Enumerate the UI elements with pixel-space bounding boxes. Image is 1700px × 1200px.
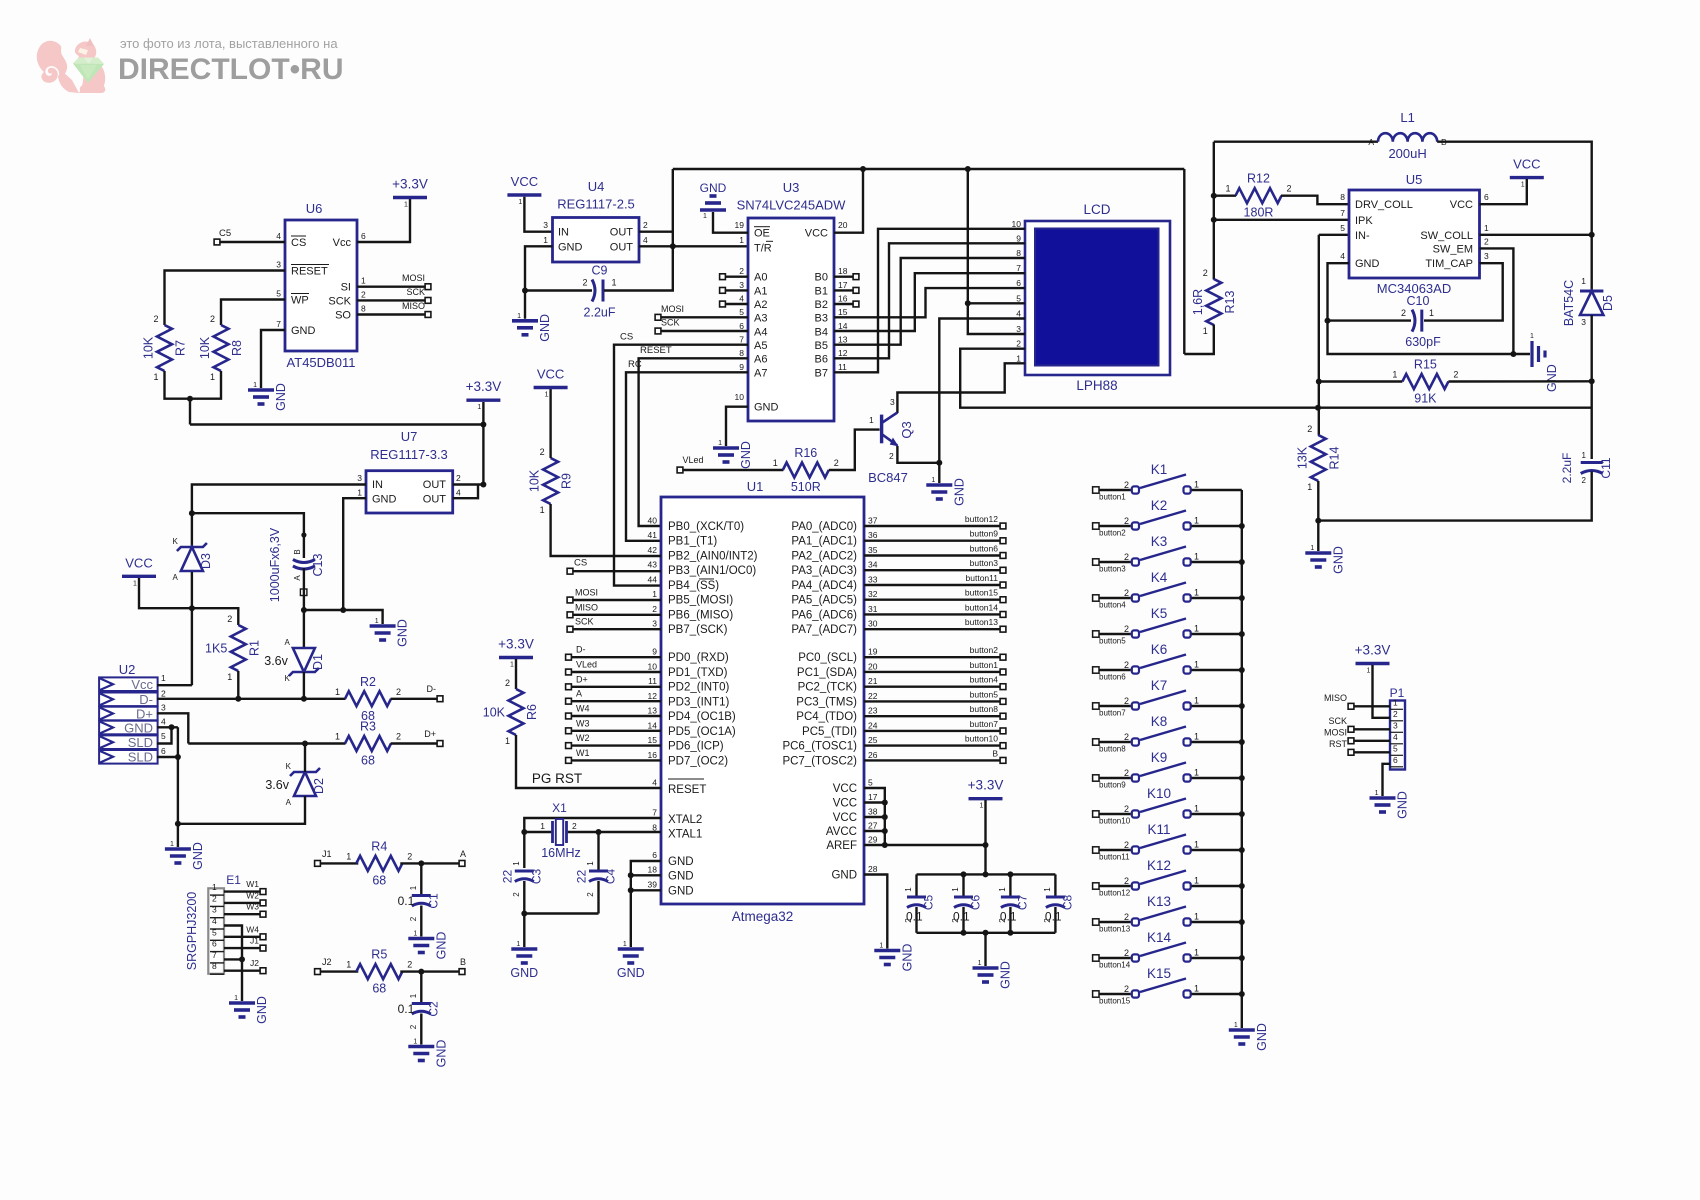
- terminal RST (P1): [1348, 749, 1354, 755]
- svg-text:button3: button3: [970, 558, 999, 568]
- svg-text:1: 1: [413, 1039, 417, 1046]
- svg-text:2: 2: [456, 473, 461, 483]
- svg-text:IN-: IN-: [1355, 230, 1370, 242]
- button K3: [1093, 534, 1242, 574]
- svg-text:button13: button13: [965, 617, 998, 627]
- U3 pin name GND: [754, 402, 779, 414]
- P1 pin 4: [1390, 732, 1403, 744]
- svg-text:GND: GND: [1355, 258, 1380, 270]
- svg-text:SW_COLL: SW_COLL: [1420, 230, 1473, 242]
- svg-text:X1: X1: [552, 801, 567, 815]
- svg-text:1: 1: [212, 882, 217, 892]
- svg-text:R2: R2: [360, 675, 376, 689]
- wire IN-: [1319, 234, 1349, 236]
- svg-text:14: 14: [838, 321, 848, 331]
- button K4: [1093, 570, 1242, 610]
- ground buttons: [1229, 1022, 1269, 1051]
- svg-text:1: 1: [1194, 768, 1199, 778]
- wire C8 bottom: [1054, 907, 1056, 933]
- wire U7 OUT2: [453, 483, 484, 485]
- svg-text:A: A: [285, 638, 291, 647]
- svg-text:0.1: 0.1: [398, 894, 415, 908]
- label W2 (PD): [576, 733, 590, 743]
- junction bus K6: [1239, 667, 1245, 673]
- svg-text:2: 2: [1582, 476, 1587, 485]
- svg-text:1: 1: [545, 392, 549, 399]
- wire MOSI A3: [662, 316, 749, 318]
- junction C10 left: [1325, 318, 1331, 324]
- svg-text:1: 1: [227, 672, 232, 682]
- U3 pin name VCC: [805, 228, 828, 240]
- label button6: [970, 543, 999, 553]
- wire C13 bottom: [303, 568, 305, 610]
- svg-text:Vcc: Vcc: [333, 237, 352, 249]
- label PG RST: [532, 771, 582, 786]
- svg-text:2: 2: [1484, 236, 1489, 246]
- svg-text:43: 43: [648, 560, 658, 570]
- wire SCK A4: [662, 330, 749, 332]
- svg-text:3: 3: [652, 619, 657, 629]
- wire W1 PD: [572, 759, 661, 761]
- svg-text:RC: RC: [628, 359, 642, 370]
- junction bus K8: [1239, 739, 1245, 745]
- svg-text:A7: A7: [754, 367, 767, 379]
- svg-text:1: 1: [510, 662, 514, 669]
- wire U3 VCC: [834, 169, 863, 233]
- terminal B1 nc: [853, 287, 859, 293]
- U6 pin numbers right: [361, 231, 366, 314]
- zener diode D3: [173, 537, 213, 582]
- E1 pin 5: [210, 927, 224, 940]
- label button10: [965, 734, 998, 744]
- label W4: [246, 924, 259, 934]
- terminal button14: [1000, 612, 1006, 618]
- svg-text:button6: button6: [1099, 673, 1126, 682]
- svg-text:RESET: RESET: [291, 266, 328, 278]
- wire R4 to A: [400, 862, 458, 864]
- svg-text:10K: 10K: [142, 336, 156, 359]
- svg-text:PD3_(INT1): PD3_(INT1): [668, 696, 730, 708]
- terminal button7: [1000, 728, 1006, 734]
- svg-text:button11: button11: [1099, 853, 1130, 862]
- button K7: [1093, 678, 1242, 718]
- label W4 (PD): [576, 704, 590, 714]
- wire L1 left: [1214, 140, 1378, 142]
- svg-text:K13: K13: [1147, 894, 1171, 909]
- svg-text:A5: A5: [754, 340, 767, 352]
- U7 pin numbers: [357, 473, 461, 498]
- svg-text:1: 1: [1194, 948, 1199, 958]
- svg-text:32: 32: [868, 589, 878, 599]
- svg-text:2: 2: [212, 893, 217, 903]
- wire U2 D-: [157, 698, 346, 700]
- wire SW_COLL: [1480, 234, 1592, 236]
- svg-text:VCC: VCC: [511, 174, 538, 189]
- svg-text:33: 33: [868, 574, 878, 584]
- U6 pin name GND: [291, 325, 316, 337]
- svg-text:IN: IN: [372, 479, 383, 491]
- svg-text:1: 1: [980, 803, 984, 810]
- A1 wire pin: [0, 0, 1, 1]
- terminal button10: [1000, 743, 1006, 749]
- wire PC1 button: [864, 671, 1000, 673]
- svg-text:C1: C1: [426, 893, 440, 909]
- power +3.3V (U7): [466, 379, 502, 411]
- button K6: [1093, 642, 1242, 682]
- wire U5 VCC: [1480, 179, 1527, 204]
- wire D+ net: [188, 742, 345, 744]
- svg-text:VCC: VCC: [833, 798, 857, 810]
- A0 wire pin: [0, 0, 1, 1]
- terminal MOSI (U1): [567, 597, 573, 603]
- svg-text:PA1_(ADC1): PA1_(ADC1): [791, 536, 857, 548]
- U6 pin name SI: [341, 282, 351, 294]
- wire AREF: [864, 844, 986, 846]
- ISP connector P1: [1390, 701, 1405, 770]
- wire C1 bottom: [420, 906, 422, 937]
- U1 label: [747, 479, 764, 494]
- svg-text:W3: W3: [246, 902, 259, 912]
- resistor R2: [335, 675, 401, 723]
- svg-text:K3: K3: [1151, 534, 1168, 549]
- capacitor C6: [951, 887, 983, 924]
- svg-text:button6: button6: [970, 543, 999, 553]
- junction caps gnd: [983, 930, 989, 936]
- terminal button9: [1000, 538, 1006, 544]
- U3 pin name B1: [815, 285, 828, 297]
- svg-text:button15: button15: [965, 588, 998, 598]
- wire C2 bottom: [420, 1014, 422, 1045]
- LCD screen: [1035, 229, 1159, 366]
- svg-text:2: 2: [1124, 840, 1129, 850]
- svg-text:VCC: VCC: [833, 812, 857, 824]
- ground U1 right: [874, 943, 914, 972]
- svg-text:1: 1: [1203, 326, 1208, 336]
- svg-text:25: 25: [868, 735, 878, 745]
- wire U2 SLD6: [157, 756, 178, 758]
- U4 value: [557, 197, 635, 212]
- U1 right pin names: [782, 516, 877, 882]
- svg-text:W4: W4: [246, 924, 259, 934]
- wire C7 bottom: [1009, 907, 1011, 933]
- svg-text:C5: C5: [922, 895, 936, 911]
- svg-text:7: 7: [739, 335, 744, 345]
- svg-text:1: 1: [1393, 697, 1398, 707]
- svg-text:28: 28: [868, 864, 878, 874]
- svg-text:button4: button4: [1099, 601, 1126, 610]
- svg-text:17: 17: [868, 792, 878, 802]
- svg-text:4: 4: [456, 488, 461, 498]
- wire C2 top: [420, 972, 422, 1004]
- microcontroller U1 Atmega32: [661, 497, 864, 904]
- U7 value: [370, 447, 448, 462]
- svg-text:C10: C10: [1407, 294, 1430, 308]
- U6 pin name SCK: [328, 295, 351, 307]
- svg-text:SN74LVC245ADW: SN74LVC245ADW: [737, 198, 847, 213]
- svg-text:+3.3V: +3.3V: [1355, 643, 1391, 658]
- U7 label: [401, 429, 418, 444]
- wire U2 Vcc: [157, 684, 192, 686]
- button K2: [1093, 498, 1242, 538]
- svg-text:26: 26: [868, 750, 878, 760]
- svg-text:2: 2: [1124, 912, 1129, 922]
- svg-text:PC0_(SCL): PC0_(SCL): [798, 652, 857, 664]
- svg-text:3: 3: [357, 473, 362, 483]
- svg-text:2: 2: [1124, 552, 1129, 562]
- wire C6 top: [962, 874, 964, 897]
- junction bus K7: [1239, 703, 1245, 709]
- wire E1 pin5: [224, 936, 260, 938]
- svg-text:D-: D-: [576, 645, 586, 655]
- svg-text:button7: button7: [970, 719, 999, 729]
- svg-text:2: 2: [512, 892, 521, 897]
- wire B2: [834, 303, 853, 305]
- svg-text:3: 3: [276, 260, 281, 270]
- wire U4 OUT2: [639, 230, 673, 232]
- svg-text:4: 4: [1340, 251, 1345, 261]
- junction AREF: [882, 842, 888, 848]
- wire C13 to D1: [303, 610, 305, 648]
- terminal button15: [1000, 597, 1006, 603]
- label RC net: [628, 359, 642, 370]
- terminal W3 (PD): [566, 728, 572, 734]
- E1 pin 1: [210, 882, 224, 895]
- wire TIM_CAP: [1424, 263, 1503, 320]
- svg-text:1: 1: [540, 821, 545, 831]
- wire P1 MISO: [1355, 705, 1391, 707]
- svg-text:2: 2: [1401, 308, 1406, 318]
- flash memory U6: [285, 220, 357, 351]
- wire E1 pin1: [224, 890, 260, 892]
- terminal J2: [315, 969, 321, 975]
- svg-text:30: 30: [868, 619, 878, 629]
- button K9: [1093, 750, 1242, 790]
- junction caps 3.3: [983, 871, 989, 877]
- svg-text:BC847: BC847: [868, 470, 908, 485]
- svg-text:2: 2: [1307, 424, 1312, 434]
- svg-text:K8: K8: [1151, 714, 1168, 729]
- svg-text:3.6v: 3.6v: [265, 778, 289, 792]
- svg-text:22: 22: [868, 691, 878, 701]
- LCD pin number 6: [1016, 278, 1021, 288]
- svg-text:8: 8: [212, 961, 217, 971]
- svg-text:1: 1: [375, 618, 379, 625]
- svg-text:SRGPHJ3200: SRGPHJ3200: [185, 892, 199, 971]
- svg-text:2: 2: [1124, 732, 1129, 742]
- svg-text:K: K: [285, 674, 291, 683]
- wire R15 right: [1448, 380, 1591, 383]
- label CS (PB3): [574, 558, 587, 569]
- wire R16 to Q3 base: [829, 430, 880, 470]
- svg-text:13K: 13K: [1295, 446, 1309, 469]
- wire P1 GND: [1383, 764, 1391, 796]
- wire PA3 button: [864, 569, 1000, 571]
- svg-text:8: 8: [361, 304, 366, 314]
- terminal VLed (R16): [677, 467, 683, 473]
- wire to C13 top: [192, 513, 304, 558]
- wire U2 D+ jog: [157, 713, 188, 743]
- wire VCC symbol to rail: [139, 578, 192, 608]
- svg-text:SLD: SLD: [128, 735, 153, 750]
- svg-text:21: 21: [868, 676, 878, 686]
- capacitor C11: [1560, 451, 1613, 485]
- label button11: [966, 573, 999, 583]
- U3 pin name B2: [815, 299, 828, 311]
- svg-text:9: 9: [652, 647, 657, 657]
- svg-text:B4: B4: [815, 326, 828, 338]
- svg-text:22: 22: [500, 870, 514, 884]
- U3 pin name B5: [815, 340, 828, 352]
- svg-text:2: 2: [1124, 516, 1129, 526]
- label D+ term: [424, 729, 436, 739]
- svg-text:GND: GND: [900, 944, 914, 972]
- svg-text:1: 1: [1194, 804, 1199, 814]
- svg-text:12: 12: [648, 691, 658, 701]
- svg-text:PA5_(ADC5): PA5_(ADC5): [791, 595, 857, 607]
- svg-text:2: 2: [582, 278, 587, 288]
- svg-text:4: 4: [161, 717, 166, 727]
- terminal button1: [1000, 669, 1006, 675]
- svg-text:11: 11: [838, 362, 847, 372]
- svg-text:PD7_(OC2): PD7_(OC2): [668, 755, 728, 767]
- wire C8 top: [1054, 874, 1056, 897]
- button K8: [1093, 714, 1242, 754]
- svg-text:4: 4: [643, 235, 648, 245]
- svg-text:A0: A0: [754, 272, 767, 284]
- junction rail U3VCC: [860, 166, 866, 172]
- svg-text:2: 2: [396, 732, 401, 742]
- svg-text:PD5_(OC1A): PD5_(OC1A): [668, 726, 736, 738]
- svg-text:C11: C11: [1599, 457, 1613, 478]
- wire C3 bottom: [523, 881, 525, 914]
- svg-text:1: 1: [543, 235, 548, 245]
- capacitor C8: [1043, 887, 1075, 924]
- svg-text:10K: 10K: [528, 469, 542, 492]
- svg-text:6: 6: [1484, 192, 1489, 202]
- wire A1: [726, 289, 748, 291]
- svg-text:5: 5: [161, 731, 166, 741]
- junction gnd bus sld6: [175, 754, 181, 760]
- terminal MOSI (U3): [655, 314, 661, 320]
- svg-text:OUT: OUT: [610, 241, 634, 253]
- svg-text:GND: GND: [191, 842, 205, 870]
- svg-text:A: A: [173, 573, 179, 582]
- svg-text:A: A: [293, 575, 302, 581]
- wire U7 OUT4: [453, 485, 478, 499]
- svg-text:D3: D3: [199, 553, 213, 569]
- junction VCC38: [882, 814, 888, 820]
- svg-text:2.2uF: 2.2uF: [1560, 453, 1574, 484]
- power +3.3V (P1): [1355, 643, 1391, 675]
- svg-text:GND: GND: [538, 314, 552, 342]
- U3 pin name B6: [815, 354, 828, 366]
- LCD pin number 7: [1016, 263, 1021, 273]
- svg-text:3: 3: [212, 905, 217, 915]
- svg-text:2: 2: [643, 220, 648, 230]
- svg-text:TIM_CAP: TIM_CAP: [1425, 258, 1473, 270]
- wire U6 SI to MOSI: [357, 286, 425, 288]
- wire A0: [726, 276, 748, 278]
- terminal D- (PD): [566, 654, 572, 660]
- svg-text:button4: button4: [970, 675, 999, 685]
- terminal D+: [437, 741, 443, 747]
- terminal J1: [260, 945, 266, 951]
- wire XTAL2: [524, 818, 661, 868]
- logo DIRECTLOT.RU: [118, 53, 343, 86]
- button K5: [1093, 606, 1242, 646]
- svg-text:6: 6: [652, 850, 657, 860]
- terminal W1 (PD): [566, 758, 572, 764]
- button K11: [1093, 822, 1242, 862]
- junction bus K5: [1239, 631, 1245, 637]
- wire PC7 button: [864, 759, 1000, 761]
- terminal button6: [1000, 553, 1006, 559]
- svg-text:SCK: SCK: [406, 287, 425, 297]
- svg-text:A6: A6: [754, 354, 767, 366]
- svg-text:CS: CS: [291, 237, 306, 249]
- svg-text:1: 1: [1582, 451, 1587, 460]
- svg-text:C5: C5: [219, 228, 231, 239]
- terminal J2: [260, 968, 266, 974]
- svg-text:5: 5: [212, 927, 217, 937]
- svg-text:1: 1: [1194, 660, 1199, 670]
- svg-text:PA6_(ADC6): PA6_(ADC6): [791, 609, 857, 621]
- wire D2 A to gnd: [178, 796, 305, 824]
- svg-text:R6: R6: [525, 704, 539, 720]
- svg-text:R16: R16: [794, 446, 817, 460]
- wire Q3 emitter: [897, 446, 939, 463]
- ground C2: [408, 1039, 448, 1068]
- junction SLD5: [169, 724, 175, 730]
- svg-text:button9: button9: [1099, 781, 1126, 790]
- wire IN- vertical: [1318, 235, 1320, 436]
- junction gnd bus d2: [175, 821, 181, 827]
- LCD value LPH88: [1076, 378, 1117, 393]
- svg-text:VCC: VCC: [833, 783, 857, 795]
- wire U3 GND10: [726, 407, 748, 446]
- svg-text:3: 3: [161, 703, 166, 713]
- svg-text:button14: button14: [965, 602, 998, 612]
- LCD pin number 2: [1016, 339, 1021, 349]
- svg-text:1: 1: [413, 931, 417, 938]
- svg-text:SCK: SCK: [1328, 716, 1347, 726]
- U3 pin name A4: [754, 326, 767, 338]
- U2 pin D-: [99, 688, 166, 707]
- svg-text:C9: C9: [592, 264, 608, 278]
- svg-text:PC7_(TOSC2): PC7_(TOSC2): [782, 755, 857, 767]
- resistor R6: [483, 678, 539, 746]
- svg-text:1: 1: [652, 589, 657, 599]
- ground P1: [1370, 790, 1410, 819]
- wire P1 MOSI: [1355, 740, 1391, 742]
- svg-text:IPK: IPK: [1355, 215, 1373, 227]
- svg-text:PA0_(ADC0): PA0_(ADC0): [791, 521, 857, 533]
- wire C1 top: [420, 863, 422, 895]
- wire rail to LCD3: [968, 169, 1025, 334]
- svg-text:1: 1: [1194, 624, 1199, 634]
- svg-text:2: 2: [1453, 370, 1458, 380]
- svg-text:1: 1: [512, 861, 521, 866]
- svg-text:B: B: [293, 549, 302, 554]
- junction bus K14: [1239, 955, 1245, 961]
- wire W4 PD: [572, 715, 661, 717]
- svg-text:A3: A3: [754, 313, 767, 325]
- wire R15 left: [1319, 380, 1403, 382]
- wire U2 gnd bus: [177, 727, 179, 847]
- wire C10 left: [1328, 319, 1412, 321]
- label button1: [970, 660, 999, 670]
- svg-text:D+: D+: [424, 729, 436, 739]
